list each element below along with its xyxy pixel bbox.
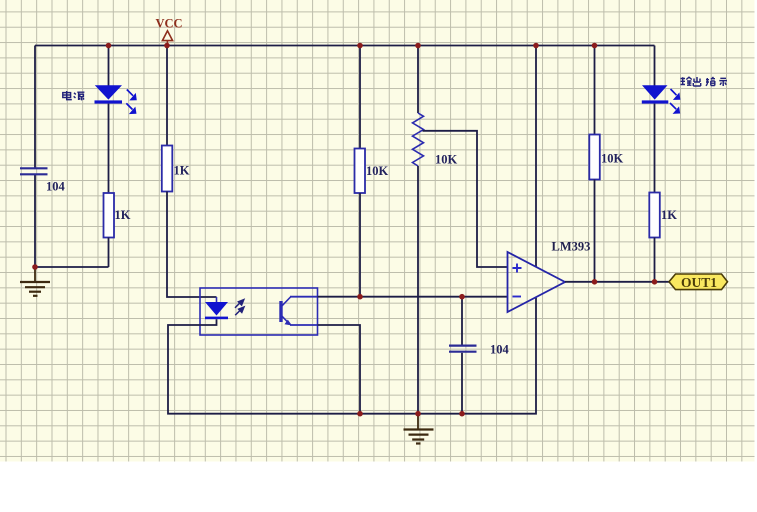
wire LED D2 to R6	[654, 104, 656, 193]
wire R2 to opto anode	[167, 192, 217, 298]
op-amp U2 triangle	[508, 252, 566, 312]
optocoupler emitter arrowhead	[285, 320, 293, 326]
wire output row	[565, 281, 669, 283]
wire right chain top	[654, 46, 656, 87]
wire R6 bottom	[654, 238, 656, 282]
svg-text:OUT1: OUT1	[681, 275, 717, 290]
op-amp plus sign	[513, 264, 522, 273]
wire VCC rail	[35, 45, 655, 47]
ground GND left	[20, 268, 50, 296]
svg-text:104: 104	[46, 180, 66, 194]
wire LED1 chain top	[108, 46, 110, 87]
svg-text:10K: 10K	[601, 152, 624, 166]
capacitor C2 plates	[449, 346, 477, 352]
resistor R6 1K	[649, 193, 660, 238]
junction dots output row	[592, 279, 658, 285]
optocoupler phototransistor	[281, 297, 318, 325]
svg-text:1K: 1K	[174, 164, 190, 178]
junction dots inverting row	[357, 294, 465, 300]
capacitor C1 plates	[20, 168, 48, 174]
wire R5 bottom	[594, 180, 596, 282]
junction dots rail	[106, 43, 598, 49]
op-amp minus sign	[513, 296, 522, 298]
junction dots bottom row	[357, 411, 465, 417]
svg-text:1K: 1K	[115, 208, 131, 222]
svg-text:VCC: VCC	[156, 17, 183, 31]
optocoupler LED anode lead	[216, 297, 218, 302]
wire opto emitter down	[318, 325, 361, 414]
LED D1 arrows	[126, 90, 136, 114]
resistor R3 10K	[355, 149, 366, 194]
wire pot chain top	[417, 46, 419, 114]
wire left column upper	[34, 46, 36, 169]
wire R3 chain top	[359, 46, 361, 149]
wire R3 bottom	[359, 193, 361, 297]
wire LED1 to R1	[108, 104, 110, 193]
optocoupler LED	[205, 302, 228, 319]
wire R1 bottom	[108, 238, 110, 268]
svg-text:1K: 1K	[661, 208, 677, 222]
svg-text:104: 104	[490, 343, 510, 357]
LED D2 output indicator	[642, 85, 669, 103]
LED D1 power indicator	[95, 85, 123, 103]
wire pot wiper to plus input	[423, 131, 508, 267]
optocoupler LED arrows	[235, 300, 244, 316]
wire comparator vplus column	[535, 46, 537, 267]
wire R5 chain top	[594, 46, 596, 135]
power VCC symbol	[162, 31, 172, 46]
capacitor C2 lead top	[461, 297, 463, 345]
svg-text:10K: 10K	[435, 153, 458, 167]
capacitor C2 lead bottom	[461, 353, 463, 414]
wire VCC chain top	[166, 46, 168, 146]
svg-text:10K: 10K	[366, 164, 389, 178]
svg-text:LM393: LM393	[552, 240, 591, 254]
resistor R1 1K	[104, 193, 115, 238]
wire ground link left	[35, 266, 109, 268]
label 电源	[63, 91, 85, 100]
ground GND middle	[404, 414, 434, 444]
optocoupler U1 box	[200, 288, 318, 335]
label 输出指示	[681, 77, 728, 86]
resistor R5 10K	[589, 135, 600, 180]
LED D2 arrows	[670, 89, 679, 113]
port OUT1 flag	[669, 274, 728, 290]
resistor R2 1K	[162, 146, 173, 192]
wire inverting input row	[318, 296, 508, 298]
potentiometer RP1 zigzag	[413, 113, 424, 166]
wire left column lower	[34, 175, 36, 267]
wire pot bottom to ground	[417, 166, 419, 414]
wire opto cathode loop	[168, 298, 536, 414]
junction dot ground left	[32, 264, 38, 270]
